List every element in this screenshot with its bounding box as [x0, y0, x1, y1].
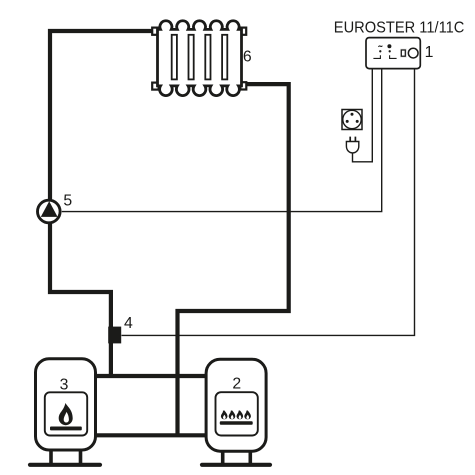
wall socket: [342, 110, 362, 130]
svg-text:3: 3: [60, 376, 69, 393]
boiler 2 burner flame 4: [244, 410, 251, 419]
boiler 3 base: [30, 463, 100, 467]
svg-text:2: 2: [232, 376, 241, 393]
boiler 2 burner bar: [220, 421, 253, 425]
controller icon: night dial dot: [379, 50, 381, 52]
boiler 2 burner panel: [216, 392, 258, 435]
controller icon: day dial bracket: [390, 55, 397, 58]
boiler 3 firebox panel: [45, 392, 87, 435]
controller switch shadow: [400, 49, 407, 58]
plug body: [346, 142, 358, 153]
radiator 6 slot 2: [189, 35, 194, 80]
boiler 3 hearth bar: [50, 427, 82, 431]
boiler 2 burner flame 2: [229, 410, 236, 419]
pipe: boiler supply loop (pump to radiator, down to boilers): [50, 31, 153, 375]
svg-text:4: 4: [124, 315, 133, 332]
controller icon: night setback tilde: [378, 46, 382, 47]
wire: controller to sensor: [122, 69, 415, 335]
pipe: radiator return down to boilers: [178, 84, 289, 434]
boiler 3 legs: [51, 450, 81, 463]
pump 5 rotor triangle: [41, 201, 58, 217]
boiler 2 burner flame 1: [221, 410, 228, 419]
svg-text:5: 5: [63, 193, 72, 210]
radiator 6 stub bottom-right: [240, 82, 246, 89]
controller icon: day sun: [387, 44, 391, 48]
radiator 6 stub bottom-left: [152, 83, 158, 90]
plug prongs: [350, 137, 355, 142]
radiator 6 body: [158, 21, 242, 96]
radiator 6 slot 1: [172, 35, 177, 80]
boiler 2 body: [206, 359, 266, 451]
radiator 6 stub top-left: [152, 28, 158, 35]
boiler 3 flame icon: [59, 403, 73, 425]
boiler 3 body: [36, 359, 96, 450]
controller icon: night dial bracket: [373, 55, 380, 58]
pipe: lower boiler interconnect: [95, 433, 207, 437]
boiler 2 legs: [223, 451, 251, 463]
sensor 4: [108, 327, 121, 344]
svg-text:1: 1: [425, 44, 434, 61]
radiator 6 slot 3: [205, 35, 210, 80]
radiator 6 slot 4: [222, 35, 227, 80]
boiler 2 burner flame 3: [236, 410, 243, 419]
controller icon: day dial dot: [389, 50, 391, 52]
boiler 2 base: [202, 463, 270, 467]
controller knob: [408, 48, 418, 58]
wire: controller to plug (cord): [353, 69, 373, 162]
svg-text:6: 6: [243, 49, 252, 66]
controller switch: [401, 50, 405, 56]
wire: controller to pump: [62, 69, 382, 212]
controller U1 box: [366, 38, 420, 69]
pump 5 body: [38, 200, 61, 223]
svg-text:EUROSTER 11/11C: EUROSTER 11/11C: [334, 20, 465, 37]
pipe: upper boiler interconnect: [95, 374, 207, 378]
radiator 6 stub top-right: [240, 28, 246, 35]
